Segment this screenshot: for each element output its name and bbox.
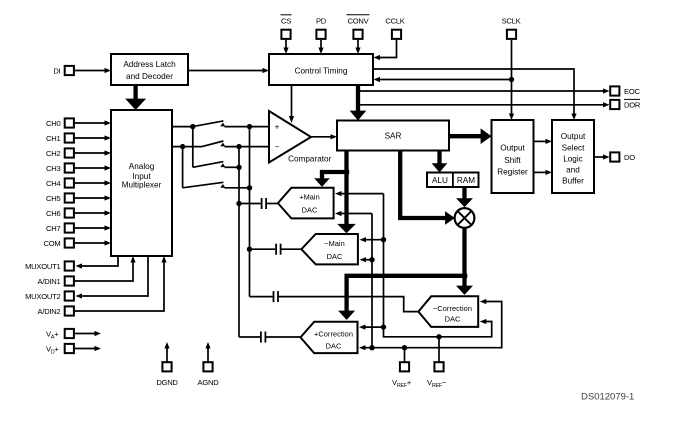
svg-text:SAR: SAR (385, 132, 402, 141)
junction VREF+ net at -Main DAC (369, 257, 374, 262)
wire CS to Control Timing (283, 40, 288, 54)
pin VREF+ (400, 362, 409, 371)
pin A/DIN1 (65, 276, 74, 285)
wire CH0 to multiplexer (75, 120, 112, 125)
svg-text:ALU: ALU (432, 176, 448, 185)
switch S2 (202, 141, 225, 147)
pin CH6 (65, 208, 74, 217)
wire VREF- net vertical (384, 194, 492, 337)
pin CH2 (65, 148, 74, 157)
wire VREF+ net to +Main DAC (335, 211, 372, 216)
text -Main DAC (324, 239, 345, 261)
dac +Correction DAC (301, 322, 358, 353)
wire A/DIN2 to multiplexer (75, 256, 167, 311)
wire capacitor C3 to -Correction DAC (279, 297, 419, 312)
svg-text:Output: Output (561, 132, 586, 141)
svg-text:COM: COM (44, 239, 61, 248)
svg-text:AGND: AGND (198, 378, 220, 387)
wire DI to Address Latch (75, 68, 112, 73)
svg-text:+Main: +Main (299, 193, 320, 202)
svg-text:DGND: DGND (156, 378, 178, 387)
bus branch to +Correction DAC (338, 276, 467, 320)
svg-text:−Correction: −Correction (433, 304, 472, 313)
svg-text:Analog: Analog (129, 162, 155, 171)
wire capacitor C4 to +Correction DAC (266, 336, 300, 338)
pin MUXOUT2 (65, 291, 74, 300)
svg-text:Register: Register (497, 168, 528, 177)
capacitor C1 (262, 198, 267, 209)
pin DO (610, 152, 619, 161)
svg-text:MUXOUT1: MUXOUT1 (25, 262, 60, 271)
wire rail B to capacitor C1 (239, 203, 261, 205)
wire CCLK to Control Timing (374, 40, 397, 60)
block ALU RAM (427, 173, 479, 188)
junction rail B C1 tap (236, 201, 241, 206)
svg-text:CH3: CH3 (46, 164, 60, 173)
wire multiplexer lower output to comparator (172, 146, 269, 148)
svg-text:CH5: CH5 (46, 194, 60, 203)
junction lower line to rail D (180, 144, 185, 149)
pin DGND (162, 362, 171, 371)
svg-text:Buffer: Buffer (562, 176, 584, 185)
wire VREF- net to -Main DAC (360, 237, 384, 242)
wire CH2 to multiplexer (75, 150, 112, 155)
wire SCLK to Output Shift Register (509, 40, 514, 120)
svg-text:−: − (275, 143, 280, 152)
label DOR with overline (624, 99, 641, 109)
bus SAR to Output Shift Register (449, 128, 492, 144)
wire rail A to capacitor C3 (250, 296, 273, 298)
block Analog Input Multiplexer (111, 110, 172, 256)
svg-text:and: and (566, 166, 580, 175)
wire CH3 to multiplexer (75, 165, 112, 170)
multiplier (455, 208, 475, 228)
pin VD+ (65, 344, 74, 353)
svg-text:DI: DI (53, 67, 60, 76)
switch S1 (193, 121, 226, 127)
svg-text:Shift: Shift (504, 156, 521, 165)
svg-text:−Main: −Main (324, 239, 345, 248)
wire AGND arrow (205, 342, 210, 362)
wire Output Select to DO (594, 154, 610, 159)
junction VREF- pin (436, 334, 441, 339)
svg-text:+Correction: +Correction (314, 330, 353, 339)
junction S4 contact on rail A (247, 185, 252, 190)
wire multiplexer to MUXOUT2 (76, 256, 149, 299)
comparator U1 (269, 111, 311, 163)
junction S3 contact on rail B (236, 165, 241, 170)
dac -Correction DAC (418, 296, 478, 327)
bus Control Timing to SAR (350, 85, 367, 121)
wire Address Latch to Control Timing (188, 68, 269, 73)
wire rail to switch S4 (182, 147, 184, 188)
switch S4 (183, 182, 250, 188)
bus Address Latch to multiplexer (125, 85, 146, 110)
svg-text:+: + (275, 123, 280, 132)
junction VREF+ pin (402, 345, 407, 350)
svg-text:MUXOUT2: MUXOUT2 (25, 292, 60, 301)
wire SCLK branch to Control Timing (374, 77, 512, 82)
svg-text:A/DIN2: A/DIN2 (38, 307, 61, 316)
svg-text:Select: Select (562, 144, 585, 153)
svg-text:A/DIN1: A/DIN1 (38, 277, 61, 286)
block Output Shift Register (492, 120, 534, 193)
svg-text:EOC: EOC (624, 87, 640, 96)
pin DI (65, 66, 74, 75)
wire VD+ supply arrow (75, 346, 102, 351)
pin VA+ (65, 329, 74, 338)
wire CH1 to multiplexer (75, 135, 112, 140)
svg-text:Output: Output (500, 144, 525, 153)
wire rail to switch S3 (192, 127, 194, 168)
wire VREF- net to +Correction DAC (359, 325, 384, 330)
pin AGND (203, 362, 212, 371)
label CS with overline (281, 15, 292, 26)
wire capacitor C1 to +Main DAC (267, 203, 278, 205)
svg-text:Comparator: Comparator (288, 154, 332, 163)
bus SAR to -Main DAC (337, 151, 356, 234)
svg-text:CH4: CH4 (46, 179, 60, 188)
svg-text:CH2: CH2 (46, 149, 60, 158)
text +Correction DAC (314, 330, 353, 351)
wire PD to Control Timing (318, 40, 323, 54)
pin CH1 (65, 133, 74, 142)
bus SAR to multiplier (400, 151, 455, 225)
block Output Select Logic and Buffer (552, 120, 594, 193)
wire DGND arrow (164, 342, 169, 362)
pin CH0 (65, 118, 74, 127)
junction rail A C2 tap (247, 247, 252, 252)
wire capacitor C2 to -Main DAC (281, 248, 301, 250)
bus multiplier to -Correction DAC (456, 228, 473, 295)
pin PD (316, 30, 325, 39)
pin CS (281, 30, 290, 39)
svg-text:CH6: CH6 (46, 209, 60, 218)
pin CH4 (65, 178, 74, 187)
svg-text:CH1: CH1 (46, 134, 60, 143)
svg-text:CH7: CH7 (46, 224, 60, 233)
bus branch to +Main DAC (314, 172, 349, 187)
pin CH7 (65, 223, 74, 232)
junction VREF+ net vertical join (369, 345, 374, 350)
wire CH6 to multiplexer (75, 210, 112, 215)
text +Main DAC (299, 193, 320, 215)
text -Correction DAC (433, 304, 472, 324)
wire CH5 to multiplexer (75, 195, 112, 200)
capacitor C4 (261, 332, 266, 343)
pin DOR (610, 100, 619, 109)
pin A/DIN2 (65, 306, 74, 315)
wire Output Shift Register to Output Select lower (534, 170, 553, 175)
wire VREF- net to +Main DAC (335, 191, 384, 196)
svg-text:Address Latch: Address Latch (123, 60, 176, 69)
wire rail A (249, 127, 251, 297)
capacitor C2 (276, 244, 281, 255)
svg-text:Control Timing: Control Timing (295, 67, 348, 76)
wire rail B (238, 147, 240, 337)
wire DOR output (357, 102, 610, 107)
dac -Main DAC (301, 234, 358, 264)
svg-text:DOR: DOR (624, 101, 641, 110)
svg-text:CH0: CH0 (46, 119, 60, 128)
svg-text:DO: DO (624, 153, 635, 162)
wire EOC output (357, 88, 610, 93)
svg-text:DAC: DAC (327, 252, 343, 261)
wire VA+ supply arrow (75, 331, 102, 336)
capacitor C3 (274, 291, 279, 302)
junction upper line to rail A (247, 124, 252, 129)
wire Control Timing to Output Select Logic (373, 69, 577, 120)
wire VREF+ net to -Main DAC (360, 257, 373, 262)
pin EOC (610, 86, 619, 95)
svg-text:PD: PD (316, 17, 327, 26)
wire rail A to capacitor C2 (250, 248, 276, 250)
pin CH3 (65, 163, 74, 172)
junction SCLK branch (509, 77, 514, 82)
block Address Latch and Decoder (111, 54, 188, 85)
wire VREF- pin stem (438, 337, 440, 362)
bus SAR to ALU (432, 151, 448, 173)
svg-text:CCLK: CCLK (385, 17, 404, 26)
wire VREF+ net to +Correction DAC arrow (359, 345, 366, 350)
svg-text:Multiplexer: Multiplexer (122, 181, 162, 190)
pin MUXOUT1 (65, 261, 74, 270)
wire multiplexer upper output to comparator (172, 126, 269, 128)
wire multiplexer to MUXOUT1 (76, 256, 119, 269)
text Output Shift Register (497, 144, 528, 177)
wire Control Timing to comparator (289, 85, 294, 123)
svg-text:CONV: CONV (348, 17, 370, 26)
label CONV with overline (347, 15, 370, 26)
svg-text:and Decoder: and Decoder (126, 72, 173, 81)
junction S1 pivot (190, 124, 195, 129)
pin CCLK (392, 30, 401, 39)
pin SCLK (507, 30, 516, 39)
text Output Select Logic and Buffer (561, 132, 586, 185)
svg-text:DAC: DAC (302, 206, 318, 215)
block Control Timing (269, 54, 373, 85)
svg-text:DAC: DAC (326, 341, 342, 350)
wire CONV to Control Timing (355, 40, 360, 54)
pin CONV (353, 30, 362, 39)
wire comparator output to SAR (311, 134, 337, 139)
text Address Latch and Decoder (123, 60, 176, 81)
pin COM (65, 238, 74, 247)
wire CH7 to multiplexer (75, 225, 112, 230)
svg-text:RAM: RAM (457, 176, 475, 185)
bus RAM to multiplier (456, 188, 473, 208)
junction VREF- net at -Main DAC (381, 237, 386, 242)
wire VREF+ net horizontal (363, 299, 502, 348)
svg-text:Logic: Logic (563, 155, 583, 164)
wire CH4 to multiplexer (75, 180, 112, 185)
wire COM to multiplexer (75, 240, 112, 245)
svg-text:DS012079-1: DS012079-1 (581, 392, 634, 403)
svg-text:DAC: DAC (445, 314, 461, 323)
text Analog Input Multiplexer (122, 162, 162, 190)
svg-text:CS: CS (281, 17, 291, 26)
junction lower line to rail B (236, 144, 241, 149)
junction VREF- net at +Correction DAC (381, 324, 386, 329)
pin VREF- (434, 362, 443, 371)
svg-text:SCLK: SCLK (502, 17, 521, 26)
switch S3 (193, 162, 239, 168)
wire VREF+ net vertical (371, 214, 373, 348)
pin CH5 (65, 193, 74, 202)
wire A/DIN1 to multiplexer (75, 256, 136, 281)
block SAR (337, 121, 449, 151)
wire VREF+ pin stem (404, 348, 406, 362)
wire rail B to capacitor C4 (239, 336, 260, 338)
dac +Main DAC (278, 188, 334, 219)
wire Output Shift Register to Output Select upper (534, 139, 553, 144)
